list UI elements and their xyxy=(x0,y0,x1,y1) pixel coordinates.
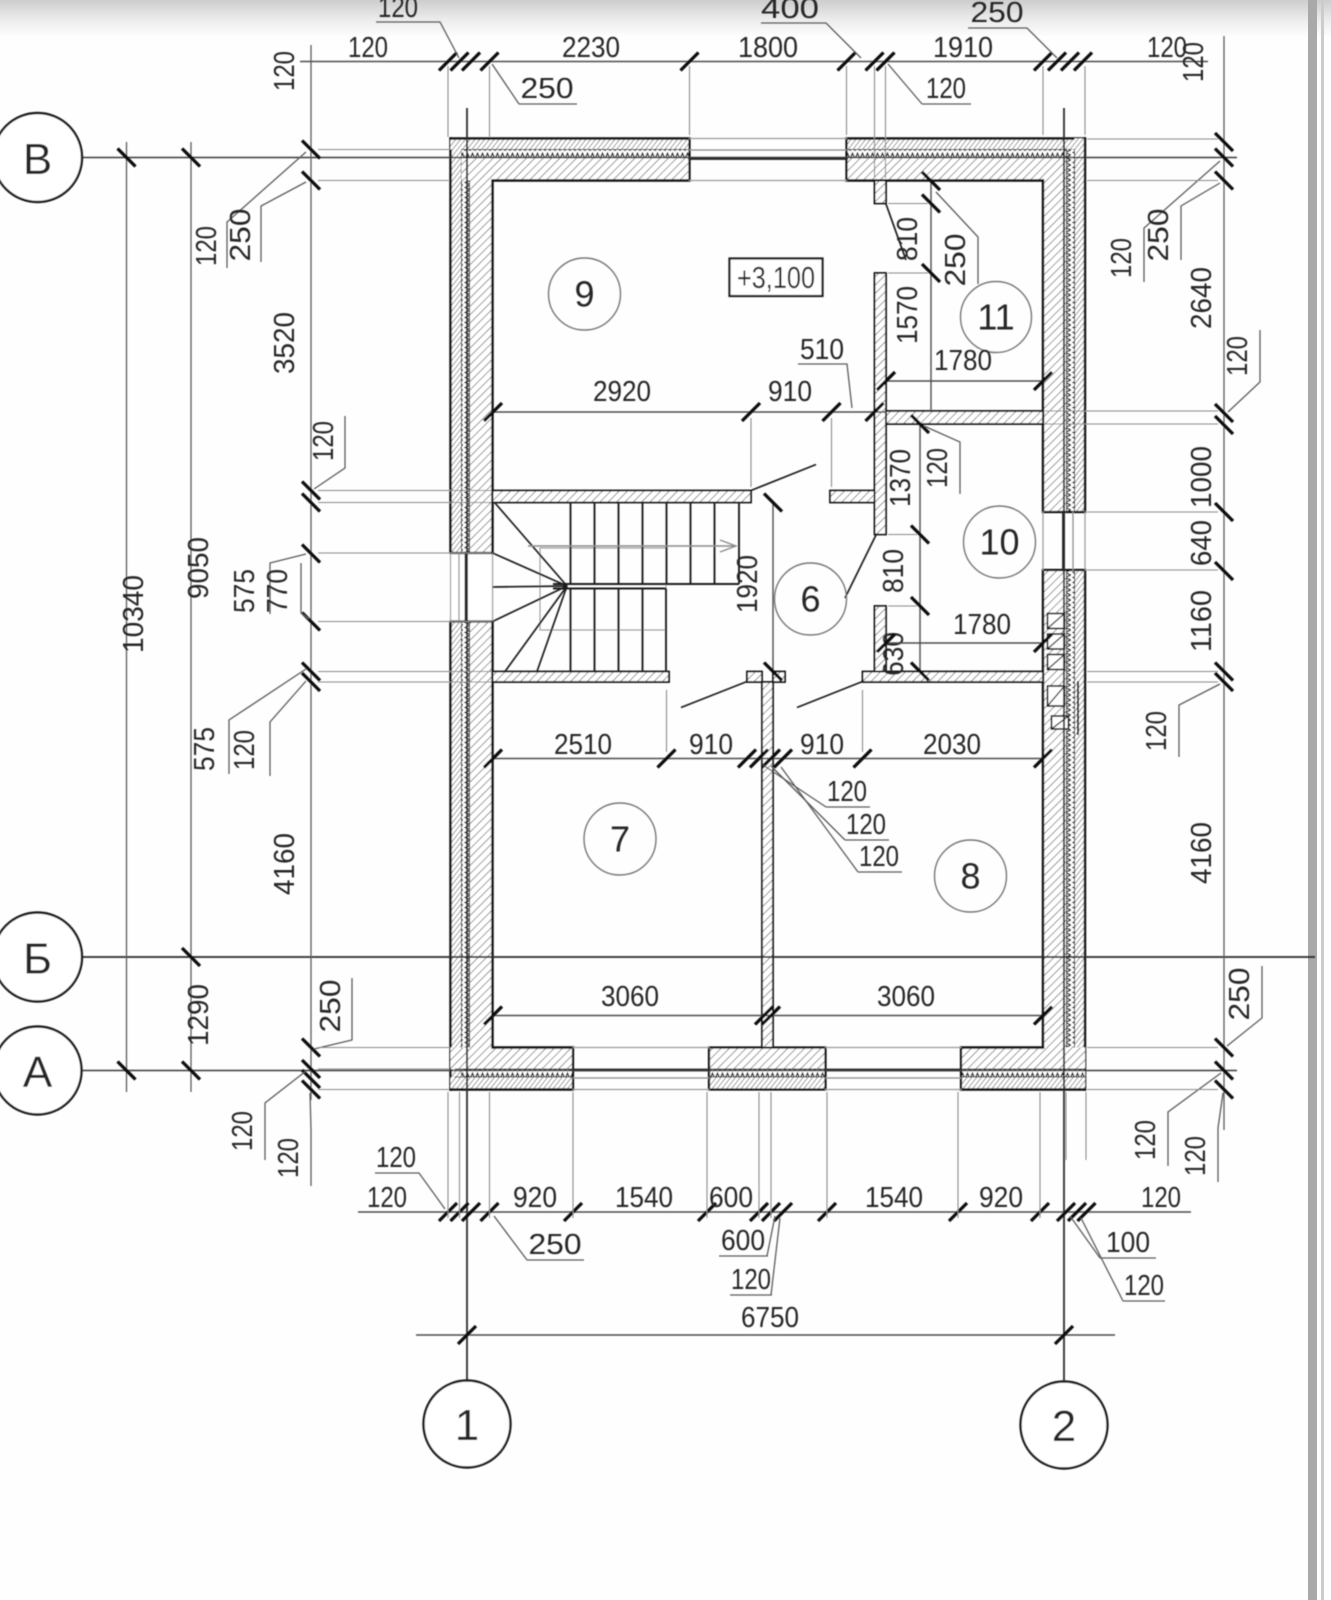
svg-text:910: 910 xyxy=(800,729,844,761)
svg-text:1780: 1780 xyxy=(953,609,1011,641)
exterior wall left: layered band x450.5-492.5 xyxy=(449,139,494,1090)
leader 575/120 lower xyxy=(189,669,306,776)
svg-text:120: 120 xyxy=(1106,238,1138,278)
svg-text:7: 7 xyxy=(610,819,630,860)
partition rooms 7/8 xyxy=(762,682,773,1048)
svg-text:120: 120 xyxy=(731,1264,771,1296)
axis bubble A xyxy=(0,1027,82,1115)
leader 250 below xyxy=(494,1216,584,1261)
svg-text:120: 120 xyxy=(1180,1136,1212,1176)
svg-text:11: 11 xyxy=(977,297,1014,338)
dim 1780 room 11 xyxy=(877,345,1052,390)
leader 120 top right xyxy=(1106,161,1220,282)
stair opening outline (thin) xyxy=(540,548,666,630)
svg-text:1000: 1000 xyxy=(1186,446,1218,508)
svg-text:250: 250 xyxy=(225,209,257,262)
svg-text:910: 910 xyxy=(768,376,812,408)
shaft inner dark line xyxy=(1077,682,1079,734)
svg-text:120: 120 xyxy=(846,809,886,841)
svg-text:2230: 2230 xyxy=(562,32,620,64)
svg-text:630: 630 xyxy=(878,632,910,676)
leaders 120x3 below hall doors xyxy=(763,765,902,873)
direction arrow xyxy=(528,540,736,552)
svg-text:400: 400 xyxy=(761,0,819,25)
svg-text:А: А xyxy=(23,1048,53,1097)
svg-text:3060: 3060 xyxy=(877,981,935,1013)
svg-text:2640: 2640 xyxy=(1186,267,1218,329)
right extension lines xyxy=(1045,139,1218,1090)
svg-text:120: 120 xyxy=(827,776,867,808)
leader 120/250 upper-left xyxy=(191,152,306,268)
window bottom-left (gap 573-709) xyxy=(573,1048,709,1090)
svg-text:6: 6 xyxy=(800,579,820,620)
right page-edge gray strip xyxy=(1308,0,1317,1600)
axis line B (horizontal) xyxy=(82,157,1237,159)
svg-text:2510: 2510 xyxy=(554,729,612,761)
window right wall (gap y512-570) xyxy=(1043,512,1085,570)
leader 400 top xyxy=(761,0,861,58)
svg-text:810: 810 xyxy=(892,217,924,261)
axis line 1 (vertical) xyxy=(466,108,468,1382)
exterior wall right, lower segment y570-1089.5 xyxy=(1043,570,1085,1090)
svg-text:120: 120 xyxy=(922,448,954,488)
door leaf: room 10 (810) xyxy=(845,535,876,598)
svg-text:120: 120 xyxy=(1141,711,1173,751)
exterior wall bottom, pier B x709-825.5 xyxy=(709,1048,826,1090)
leader 120 120 bottom right xyxy=(1130,1073,1223,1182)
svg-text:2030: 2030 xyxy=(923,729,981,761)
svg-text:1: 1 xyxy=(455,1401,479,1450)
svg-text:250: 250 xyxy=(971,0,1024,29)
dim 1780 room 10 xyxy=(877,609,1052,652)
svg-text:600: 600 xyxy=(721,1225,765,1257)
axis bubble Bb xyxy=(0,913,82,1002)
partition below stairwell xyxy=(493,672,670,683)
svg-text:100: 100 xyxy=(1106,1227,1150,1259)
svg-text:3060: 3060 xyxy=(601,981,659,1013)
dim 3060/3060 line xyxy=(484,981,1052,1025)
svg-text:120: 120 xyxy=(378,0,418,24)
svg-text:9: 9 xyxy=(574,274,594,315)
leader 120 below-right xyxy=(1081,1218,1165,1302)
partition rooms 11/10, stub at top wall xyxy=(875,181,887,204)
elevation mark +3,100 xyxy=(730,259,823,297)
exterior wall bottom, pier C x961-1085 xyxy=(961,1048,1085,1090)
room circle 10 xyxy=(964,506,1036,578)
svg-text:4160: 4160 xyxy=(1186,822,1218,884)
room circle 11 xyxy=(961,282,1032,353)
svg-text:250: 250 xyxy=(1224,968,1256,1021)
svg-text:575: 575 xyxy=(189,727,221,771)
svg-text:В: В xyxy=(23,135,52,184)
svg-text:770: 770 xyxy=(262,569,294,613)
exterior wall top, left pier x450.5-689.5 xyxy=(451,139,690,181)
exterior wall top, right pier x846.5-1085 xyxy=(847,139,1086,181)
leader 120 120 bottom-left xyxy=(227,1071,311,1186)
door jamb piece right of partition 7/8 xyxy=(773,672,785,683)
svg-text:250: 250 xyxy=(1143,209,1175,262)
leader 120 below xyxy=(730,1218,780,1296)
leader 575/770 xyxy=(229,554,309,619)
left chain line xyxy=(310,45,312,1100)
svg-text:120: 120 xyxy=(1178,42,1210,82)
svg-text:120: 120 xyxy=(859,841,899,873)
room circle 9 xyxy=(549,258,621,330)
leader 600 below xyxy=(719,1216,775,1257)
top shading band xyxy=(0,0,1331,38)
svg-text:640: 640 xyxy=(1186,520,1218,566)
door leaf: room 7 (910) xyxy=(681,682,747,708)
svg-text:1160: 1160 xyxy=(1186,590,1218,652)
axis line A (horizontal) xyxy=(82,1070,1237,1072)
svg-text:1800: 1800 xyxy=(738,32,798,64)
svg-text:920: 920 xyxy=(513,1182,557,1214)
svg-text:1540: 1540 xyxy=(615,1182,673,1214)
top dim line xyxy=(300,61,1208,63)
bottom extension lines xyxy=(448,1092,1086,1218)
svg-text:1780: 1780 xyxy=(934,345,992,377)
upper flight treads xyxy=(553,503,739,589)
svg-text:+3,100: +3,100 xyxy=(737,260,815,295)
svg-text:120: 120 xyxy=(1222,336,1254,376)
svg-text:120: 120 xyxy=(273,1138,305,1178)
window top (in gap 689.5-846.5) xyxy=(690,139,847,181)
vent shaft boxes in right wall xyxy=(1048,614,1069,730)
svg-text:600: 600 xyxy=(709,1182,753,1214)
axis line 2 (vertical) xyxy=(1063,108,1065,1383)
leader 250 below-left xyxy=(492,64,577,105)
door jamb piece left of partition 7/8 xyxy=(747,672,762,683)
svg-text:250: 250 xyxy=(521,73,574,105)
partition rooms 11/10, middle segment xyxy=(875,273,887,535)
dim 2920/910/510 line xyxy=(484,334,886,487)
10340 line xyxy=(126,142,128,1092)
ticks left xyxy=(118,141,321,1099)
dim 1920 vertical xyxy=(732,494,782,681)
svg-text:910: 910 xyxy=(689,729,733,761)
leader 100 below-right xyxy=(1070,1216,1156,1259)
leader 120 (under 3520) xyxy=(308,416,345,489)
right thin edge line xyxy=(1321,0,1324,1600)
leader 120 above-left xyxy=(375,1142,445,1209)
leader 120 (room11 bottom wall) xyxy=(1222,330,1260,412)
dim 1370/120/810/630 room 10 xyxy=(878,415,960,681)
leader 250 bottom-left chain xyxy=(314,978,352,1049)
window in left wall at stair landing xyxy=(449,553,494,622)
partition below room 11 xyxy=(886,411,1043,424)
door leaf: hall to room 9 area (910) xyxy=(751,465,816,491)
svg-text:1920: 1920 xyxy=(732,555,764,613)
door leaf: room 8 (910) xyxy=(797,682,863,708)
exterior wall right, upper segment y138.5-512 xyxy=(1043,139,1085,513)
svg-text:1570: 1570 xyxy=(892,286,924,344)
room circle 6 xyxy=(775,563,847,635)
lower flight treads xyxy=(571,589,667,672)
leader 120 top-left xyxy=(376,0,459,58)
svg-text:120: 120 xyxy=(367,1182,407,1214)
svg-text:4160: 4160 xyxy=(269,833,301,895)
axis line Bb (horizontal, long) xyxy=(82,956,1315,958)
leader 250 top-right xyxy=(968,0,1057,58)
svg-text:120: 120 xyxy=(926,73,966,105)
exterior wall bottom, pier A x450.5-573 xyxy=(451,1048,574,1090)
svg-text:120: 120 xyxy=(308,421,340,461)
svg-text:120: 120 xyxy=(376,1142,416,1174)
svg-text:250: 250 xyxy=(315,980,347,1033)
svg-text:2: 2 xyxy=(1052,1402,1076,1451)
svg-text:10340: 10340 xyxy=(118,575,150,653)
svg-text:6750: 6750 xyxy=(741,1302,799,1334)
svg-text:250: 250 xyxy=(940,234,972,287)
svg-text:1290: 1290 xyxy=(183,984,215,1046)
leader 120 below-right xyxy=(888,64,971,105)
top dim ticks xyxy=(439,53,1092,71)
svg-text:120: 120 xyxy=(1124,1270,1164,1302)
axis bubble 1 xyxy=(424,1381,511,1468)
leader 250 bottom right chain xyxy=(1224,966,1262,1046)
winder fan lines xyxy=(493,503,568,672)
top extension lines xyxy=(448,66,1085,178)
9050/1290 line xyxy=(190,142,192,1092)
door leaf: room 11 (810) xyxy=(886,204,906,260)
partition below room 10 xyxy=(863,672,1044,683)
window bottom-right (gap 825.5-961) xyxy=(826,1048,962,1090)
6750 dimension xyxy=(416,1302,1115,1344)
axis bubble B xyxy=(0,113,82,202)
svg-text:Б: Б xyxy=(23,935,52,984)
partition under room 9 (left segment) xyxy=(493,491,752,503)
svg-text:575: 575 xyxy=(229,569,261,613)
partition under room 9 (right segment, door jamb to room11 wall) xyxy=(830,491,875,503)
svg-text:120: 120 xyxy=(191,226,223,266)
svg-text:120: 120 xyxy=(1141,1182,1181,1214)
axis bubble 2 xyxy=(1021,1382,1108,1469)
svg-text:920: 920 xyxy=(979,1182,1023,1214)
dim 2510/910/910/2030 line xyxy=(484,690,1052,768)
svg-text:1540: 1540 xyxy=(865,1182,923,1214)
svg-text:120: 120 xyxy=(1130,1120,1162,1160)
svg-text:250: 250 xyxy=(529,1229,582,1261)
svg-text:8: 8 xyxy=(960,856,980,897)
svg-text:120: 120 xyxy=(227,1111,259,1151)
svg-text:120: 120 xyxy=(269,51,301,91)
leader 120 (room10 bottom wall) xyxy=(1141,684,1220,757)
partition rooms 11/10, lower stub xyxy=(875,606,887,672)
svg-text:10: 10 xyxy=(979,522,1019,563)
left extension lines xyxy=(318,150,491,1090)
svg-text:120: 120 xyxy=(229,730,261,770)
svg-text:3520: 3520 xyxy=(269,312,301,374)
svg-text:2920: 2920 xyxy=(593,376,651,408)
svg-text:510: 510 xyxy=(800,334,844,366)
svg-text:1370: 1370 xyxy=(885,449,917,507)
svg-text:9050: 9050 xyxy=(183,537,215,599)
room circle 8 xyxy=(935,840,1007,912)
svg-text:810: 810 xyxy=(878,549,910,593)
room circle 7 xyxy=(584,803,656,875)
dim 250/810/1570 room 11 xyxy=(888,172,978,411)
svg-text:120: 120 xyxy=(348,32,388,64)
svg-text:1910: 1910 xyxy=(933,32,993,64)
